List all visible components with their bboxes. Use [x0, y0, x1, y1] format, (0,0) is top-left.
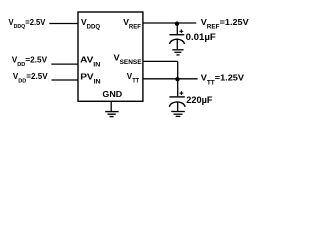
- capacitor C2 top plate: [169, 96, 184, 98]
- pin label VREF: [123, 17, 141, 31]
- IC U1 (termination regulator) body: [78, 12, 143, 101]
- capacitor C2 value 220uF: [186, 95, 213, 105]
- wire VSENSE vertical down to VTT node: [177, 61, 179, 78]
- capacitor C1 value 0.01uF: [186, 32, 216, 42]
- svg-text:220µF: 220µF: [186, 95, 213, 105]
- junction dot node VREF: [175, 22, 179, 26]
- capacitor C1 plus sign: [179, 29, 183, 33]
- supply label VDDQ=2.5V: [9, 18, 47, 31]
- wire VREF pin to node: [143, 22, 197, 24]
- svg-text:GND: GND: [102, 89, 122, 99]
- supply label VDD=2.5V (PVIN): [13, 72, 48, 84]
- node label VREF=1.25V: [201, 17, 249, 30]
- junction dot node VTT: [175, 77, 179, 81]
- ground for C1: [172, 50, 183, 55]
- capacitor C2 220uF: lead from VTT node: [177, 79, 179, 96]
- ground for C2: [171, 112, 185, 117]
- capacitor C2 curved bottom plate: [169, 102, 185, 107]
- capacitor C1 lead to ground: [176, 39, 178, 49]
- svg-text:0.01µF: 0.01µF: [186, 32, 216, 42]
- capacitor C2 plus sign: [180, 91, 184, 95]
- capacitor C1 0.01uF: lead from VREF node: [176, 24, 178, 35]
- wire VSENSE pin horizontal: [143, 60, 178, 62]
- capacitor C1 top plate: [170, 34, 185, 36]
- ground for IC GND pin: [105, 112, 118, 117]
- pin label VTT: [127, 71, 140, 85]
- node label VTT=1.25V: [201, 73, 244, 86]
- wire VDD supply to pin AVIN: [51, 63, 78, 65]
- wire VDD supply to pin PVIN: [52, 79, 79, 81]
- capacitor C2 lead to ground: [177, 102, 179, 111]
- wire VTT pin to node: [143, 78, 198, 80]
- supply label VDD=2.5V (AVIN): [12, 56, 48, 68]
- pin label AVIN: [80, 55, 101, 68]
- pin label PVIN: [80, 72, 101, 85]
- wire VDDQ supply to pin VDDQ: [49, 23, 78, 25]
- pin label VSENSE: [114, 53, 142, 66]
- wire GND pin to ground: [110, 102, 112, 112]
- capacitor C1 curved bottom plate: [170, 39, 185, 44]
- pin label GND: [102, 89, 122, 99]
- pin label VDDQ: [81, 17, 100, 31]
